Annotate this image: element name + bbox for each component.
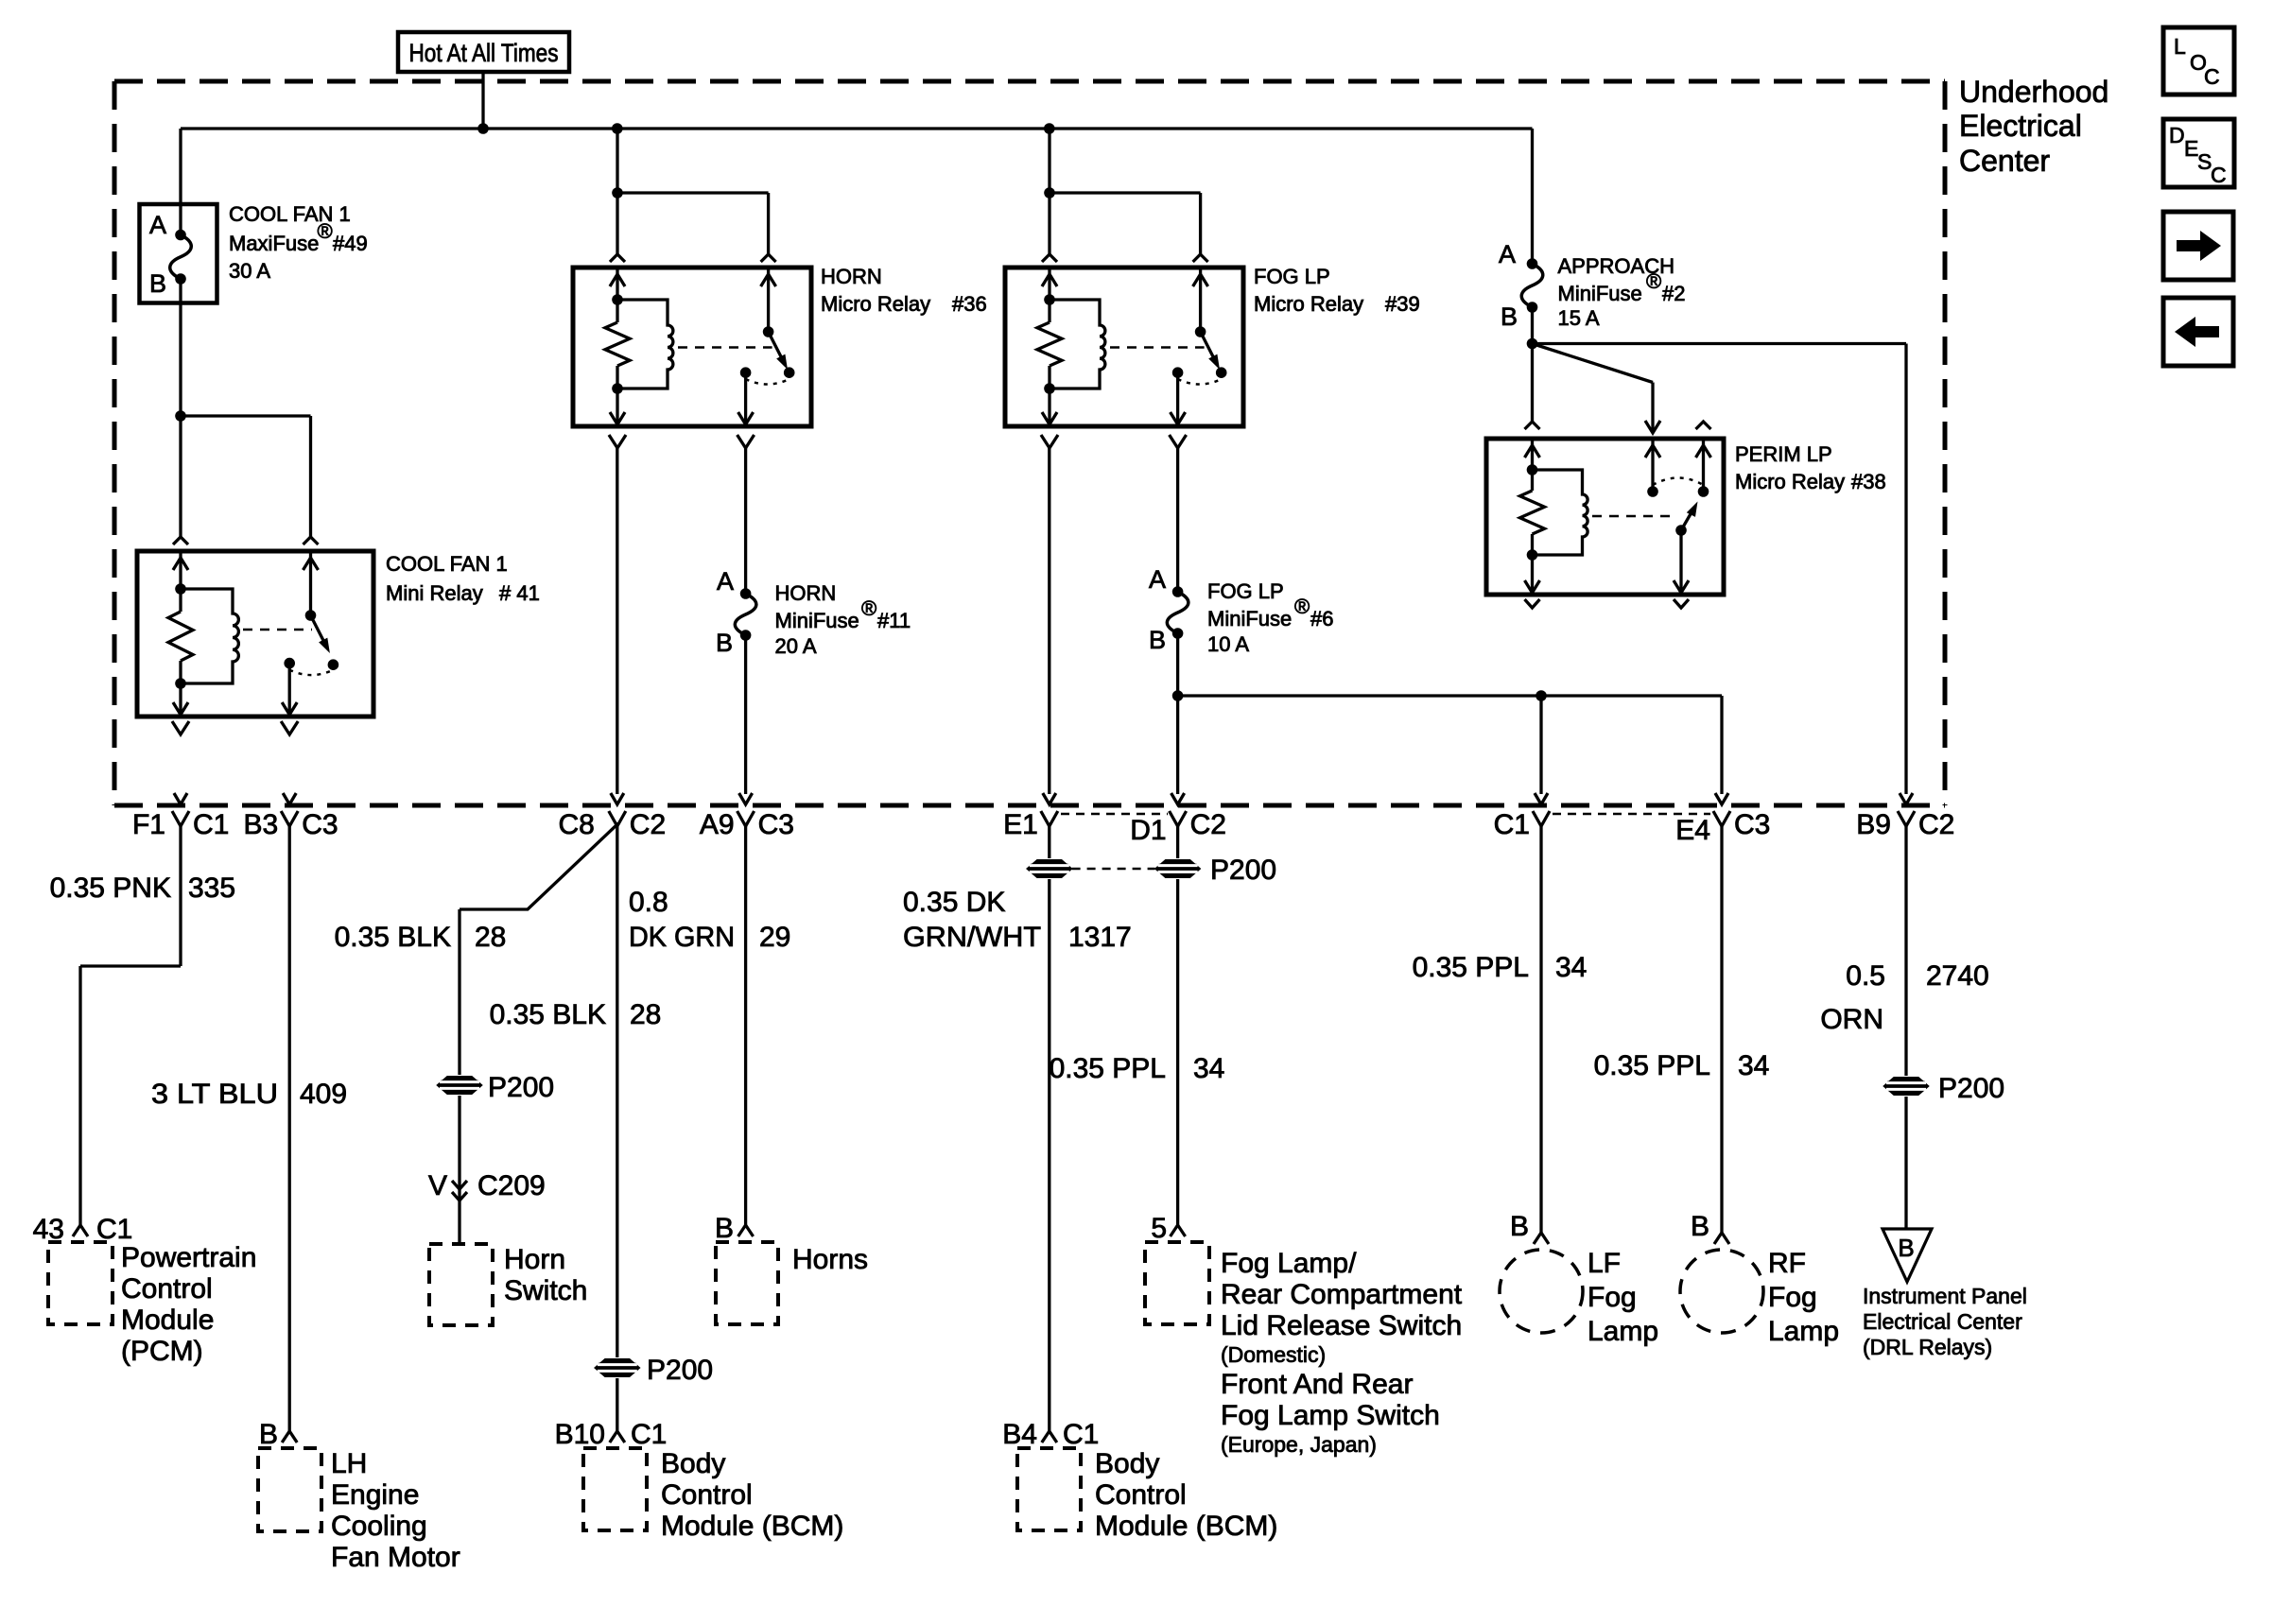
svg-text:29: 29 xyxy=(759,922,790,953)
svg-text:Engine: Engine xyxy=(331,1479,419,1511)
svg-text:RF: RF xyxy=(1768,1248,1806,1279)
svg-text:A: A xyxy=(717,567,734,596)
svg-text:Instrument Panel: Instrument Panel xyxy=(1863,1284,2027,1308)
svg-text:Lid Release Switch: Lid Release Switch xyxy=(1221,1310,1462,1341)
svg-text:A9: A9 xyxy=(700,809,735,840)
svg-text:B: B xyxy=(1510,1211,1529,1242)
svg-text:®: ® xyxy=(318,219,333,243)
svg-text:Body: Body xyxy=(661,1448,725,1479)
svg-text:®: ® xyxy=(1294,595,1310,618)
svg-text:Switch: Switch xyxy=(504,1275,587,1306)
svg-text:P200: P200 xyxy=(647,1355,713,1386)
svg-text:MaxiFuse: MaxiFuse xyxy=(229,232,319,255)
svg-text:Mini Relay: Mini Relay xyxy=(386,581,483,605)
svg-text:P200: P200 xyxy=(1210,855,1276,886)
svg-text:Electrical Center: Electrical Center xyxy=(1863,1309,2022,1334)
svg-text:Fog: Fog xyxy=(1588,1282,1637,1313)
svg-text:#36: #36 xyxy=(952,292,987,316)
svg-text:C1: C1 xyxy=(1494,809,1530,840)
svg-text:Module (BCM): Module (BCM) xyxy=(1095,1511,1277,1542)
svg-text:#11: #11 xyxy=(877,609,911,632)
svg-text:E4: E4 xyxy=(1675,815,1710,846)
svg-text:Fog Lamp Switch: Fog Lamp Switch xyxy=(1221,1400,1440,1431)
svg-text:C1: C1 xyxy=(193,809,229,840)
svg-text:HORN: HORN xyxy=(821,265,882,288)
svg-text:B4: B4 xyxy=(1002,1419,1037,1450)
svg-text:#2: #2 xyxy=(1662,282,1685,305)
svg-text:B: B xyxy=(1691,1211,1709,1242)
svg-text:B: B xyxy=(259,1419,278,1450)
svg-text:C1: C1 xyxy=(1063,1419,1099,1450)
svg-text:A: A xyxy=(1149,565,1166,594)
svg-text:Fog Lamp/: Fog Lamp/ xyxy=(1221,1248,1357,1279)
svg-text:34: 34 xyxy=(1555,952,1587,983)
svg-text:B3: B3 xyxy=(243,809,278,840)
svg-text:MiniFuse: MiniFuse xyxy=(775,609,859,632)
svg-text:0.35 PPL: 0.35 PPL xyxy=(1050,1053,1166,1084)
svg-text:#49: #49 xyxy=(333,232,368,255)
svg-text:#6: #6 xyxy=(1310,607,1333,631)
svg-text:B: B xyxy=(715,1213,734,1244)
svg-text:3 LT BLU: 3 LT BLU xyxy=(151,1079,278,1110)
svg-text:30 A: 30 A xyxy=(229,259,270,283)
svg-text:B9: B9 xyxy=(1856,809,1891,840)
svg-text:Control: Control xyxy=(121,1273,213,1304)
svg-text:Fan Motor: Fan Motor xyxy=(331,1542,460,1573)
svg-text:ORN: ORN xyxy=(1820,1004,1883,1035)
svg-text:C3: C3 xyxy=(302,809,338,840)
svg-text:Electrical: Electrical xyxy=(1959,109,2082,143)
svg-text:Body: Body xyxy=(1095,1448,1159,1479)
svg-text:LF: LF xyxy=(1588,1248,1621,1279)
svg-text:2740: 2740 xyxy=(1926,960,1989,992)
svg-text:335: 335 xyxy=(188,872,235,904)
svg-text:C2: C2 xyxy=(630,809,666,840)
svg-text:Lamp: Lamp xyxy=(1588,1316,1658,1347)
svg-text:34: 34 xyxy=(1193,1053,1224,1084)
svg-text:A: A xyxy=(1499,240,1516,268)
svg-text:Front And Rear: Front And Rear xyxy=(1221,1369,1413,1400)
svg-text:®: ® xyxy=(861,596,876,620)
svg-text:20 A: 20 A xyxy=(775,634,817,658)
svg-text:C209: C209 xyxy=(477,1170,546,1201)
svg-text:Center: Center xyxy=(1959,144,2050,178)
svg-text:28: 28 xyxy=(630,999,661,1030)
svg-text:Rear Compartment: Rear Compartment xyxy=(1221,1279,1463,1310)
svg-text:(Europe, Japan): (Europe, Japan) xyxy=(1221,1432,1377,1457)
svg-text:Underhood: Underhood xyxy=(1959,75,2108,109)
svg-text:DK GRN: DK GRN xyxy=(629,922,735,953)
svg-text:Hot At All Times: Hot At All Times xyxy=(409,39,559,67)
svg-text:0.5: 0.5 xyxy=(1846,960,1885,992)
svg-text:0.35 PPL: 0.35 PPL xyxy=(1413,952,1529,983)
svg-text:D1: D1 xyxy=(1130,815,1166,846)
svg-text:LH: LH xyxy=(331,1448,367,1479)
svg-text:®: ® xyxy=(1646,269,1661,293)
svg-text:HORN: HORN xyxy=(775,581,837,605)
svg-text:Cooling: Cooling xyxy=(331,1511,427,1542)
svg-text:Control: Control xyxy=(1095,1479,1187,1511)
svg-text:34: 34 xyxy=(1738,1050,1769,1081)
svg-text:0.8: 0.8 xyxy=(629,887,668,918)
svg-text:#38: #38 xyxy=(1851,470,1886,493)
svg-text:Fog: Fog xyxy=(1768,1282,1817,1313)
svg-text:1317: 1317 xyxy=(1068,922,1132,953)
svg-text:C8: C8 xyxy=(558,809,594,840)
svg-text:C2: C2 xyxy=(1918,809,1954,840)
svg-text:#39: #39 xyxy=(1385,292,1420,316)
svg-text:Control: Control xyxy=(661,1479,753,1511)
svg-text:B: B xyxy=(149,269,166,298)
svg-text:Horns: Horns xyxy=(792,1244,868,1275)
svg-text:Horn: Horn xyxy=(504,1244,565,1275)
svg-text:GRN/WHT: GRN/WHT xyxy=(903,922,1041,953)
svg-text:MiniFuse: MiniFuse xyxy=(1558,282,1642,305)
svg-text:C3: C3 xyxy=(758,809,794,840)
svg-text:P200: P200 xyxy=(488,1072,554,1103)
svg-text:MiniFuse: MiniFuse xyxy=(1207,607,1292,631)
svg-text:5: 5 xyxy=(1151,1213,1167,1244)
svg-text:A: A xyxy=(149,211,166,239)
svg-text:28: 28 xyxy=(475,922,506,953)
svg-text:P200: P200 xyxy=(1938,1073,2004,1104)
svg-text:V: V xyxy=(428,1170,447,1201)
svg-text:0.35 BLK: 0.35 BLK xyxy=(490,999,606,1030)
svg-text:0.35 DK: 0.35 DK xyxy=(903,887,1005,918)
svg-text:FOG LP: FOG LP xyxy=(1254,265,1330,288)
svg-text:(PCM): (PCM) xyxy=(121,1336,203,1367)
svg-text:Powertrain: Powertrain xyxy=(121,1242,256,1273)
svg-text:B: B xyxy=(1898,1234,1914,1262)
svg-text:FOG LP: FOG LP xyxy=(1207,579,1284,603)
svg-text:(DRL Relays): (DRL Relays) xyxy=(1863,1335,1992,1359)
svg-text:# 41: # 41 xyxy=(499,581,540,605)
svg-text:0.35 PPL: 0.35 PPL xyxy=(1594,1050,1710,1081)
svg-text:C: C xyxy=(2211,163,2227,187)
svg-text:0.35 PNK: 0.35 PNK xyxy=(50,872,171,904)
svg-text:Module (BCM): Module (BCM) xyxy=(661,1511,843,1542)
svg-text:C3: C3 xyxy=(1734,809,1770,840)
svg-text:10 A: 10 A xyxy=(1207,632,1249,656)
svg-text:D: D xyxy=(2169,123,2185,147)
svg-text:PERIM LP: PERIM LP xyxy=(1735,442,1832,466)
svg-text:Micro Relay: Micro Relay xyxy=(1735,470,1845,493)
svg-text:0.35 BLK: 0.35 BLK xyxy=(335,922,451,953)
svg-text:B: B xyxy=(1149,626,1166,654)
svg-text:COOL FAN 1: COOL FAN 1 xyxy=(386,552,508,576)
svg-text:Micro Relay: Micro Relay xyxy=(1254,292,1363,316)
svg-text:B: B xyxy=(716,629,733,657)
svg-text:(Domestic): (Domestic) xyxy=(1221,1342,1326,1367)
svg-text:Module: Module xyxy=(121,1304,214,1336)
svg-text:Lamp: Lamp xyxy=(1768,1316,1839,1347)
svg-text:L: L xyxy=(2174,34,2186,59)
svg-text:C: C xyxy=(2204,64,2220,89)
svg-text:Micro Relay: Micro Relay xyxy=(821,292,930,316)
svg-text:E1: E1 xyxy=(1003,809,1038,840)
svg-text:F1: F1 xyxy=(132,809,165,840)
svg-text:C2: C2 xyxy=(1190,809,1226,840)
svg-text:B: B xyxy=(1501,302,1518,331)
svg-text:409: 409 xyxy=(300,1079,347,1110)
svg-text:C1: C1 xyxy=(631,1419,667,1450)
svg-text:B10: B10 xyxy=(555,1419,605,1450)
svg-text:15 A: 15 A xyxy=(1558,306,1600,330)
